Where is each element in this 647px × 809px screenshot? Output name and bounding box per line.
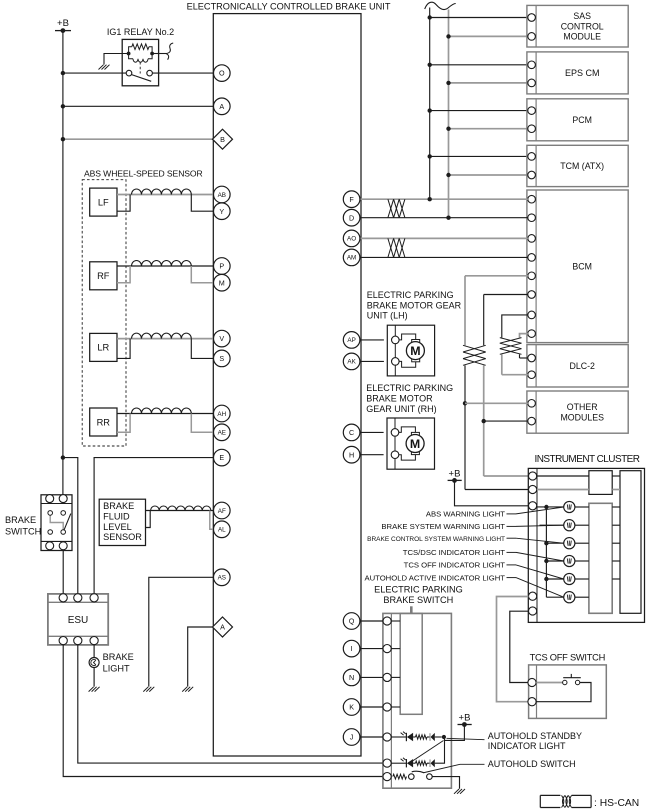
svg-text:AL: AL xyxy=(218,527,226,534)
svg-text:BRAKE: BRAKE xyxy=(103,501,134,511)
svg-text:MODULE: MODULE xyxy=(563,32,601,42)
svg-text:SWITCH: SWITCH xyxy=(5,527,41,537)
svg-text:EPS CM: EPS CM xyxy=(565,68,600,78)
svg-text:+B: +B xyxy=(459,713,471,724)
svg-text:AF: AF xyxy=(218,508,226,515)
svg-text:AH: AH xyxy=(217,411,226,418)
svg-text:C: C xyxy=(349,428,354,437)
svg-text:RF: RF xyxy=(97,271,110,281)
svg-text:BRAKE SWITCH: BRAKE SWITCH xyxy=(383,595,453,605)
svg-text:FLUID: FLUID xyxy=(103,511,130,521)
svg-text:TCS/DSC INDICATOR LIGHT: TCS/DSC INDICATOR LIGHT xyxy=(403,548,506,557)
svg-text:MODULES: MODULES xyxy=(560,412,604,422)
svg-text:INSTRUMENT CLUSTER: INSTRUMENT CLUSTER xyxy=(535,454,640,465)
svg-text:S: S xyxy=(219,354,224,363)
svg-text:BRAKE SYSTEM WARNING LIGHT: BRAKE SYSTEM WARNING LIGHT xyxy=(381,522,505,531)
svg-text:UNIT (LH): UNIT (LH) xyxy=(367,311,408,321)
svg-text:GEAR UNIT (RH): GEAR UNIT (RH) xyxy=(366,404,436,414)
svg-text:AS: AS xyxy=(218,575,226,582)
svg-text:AK: AK xyxy=(347,359,356,366)
svg-text:O: O xyxy=(219,69,225,78)
svg-text:A: A xyxy=(219,102,224,111)
svg-text:AP: AP xyxy=(347,337,355,344)
svg-text:ELECTRIC PARKING: ELECTRIC PARKING xyxy=(374,585,463,595)
svg-text:F: F xyxy=(349,195,354,204)
svg-text:CONTROL: CONTROL xyxy=(561,21,604,31)
svg-text:A: A xyxy=(220,623,225,632)
svg-text:SAS: SAS xyxy=(573,11,591,21)
svg-text:D: D xyxy=(349,213,354,222)
svg-text:+B: +B xyxy=(57,18,69,29)
svg-text:BRAKE CONTROL SYSTEM WARNING L: BRAKE CONTROL SYSTEM WARNING LIGHT xyxy=(367,536,505,543)
svg-text:ELECTRIC PARKING: ELECTRIC PARKING xyxy=(367,290,454,300)
svg-text:SENSOR: SENSOR xyxy=(103,532,142,542)
svg-text:ESU: ESU xyxy=(68,615,89,626)
svg-text:V: V xyxy=(219,334,224,343)
svg-text:ABS WHEEL-SPEED SENSOR: ABS WHEEL-SPEED SENSOR xyxy=(84,169,203,179)
svg-text:AUTOHOLD STANDBY: AUTOHOLD STANDBY xyxy=(488,731,582,741)
svg-text:K: K xyxy=(349,703,354,712)
svg-text:DLC-2: DLC-2 xyxy=(569,361,595,371)
svg-text:RR: RR xyxy=(97,417,111,427)
svg-text:BRAKE: BRAKE xyxy=(103,652,134,662)
svg-text:AUTOHOLD SWITCH: AUTOHOLD SWITCH xyxy=(488,759,576,769)
svg-text:N: N xyxy=(349,673,354,682)
svg-text:M: M xyxy=(410,437,420,451)
svg-text:+B: +B xyxy=(449,468,461,479)
svg-text:BRAKE MOTOR: BRAKE MOTOR xyxy=(366,394,433,404)
svg-text:M: M xyxy=(219,278,225,287)
svg-text:AM: AM xyxy=(347,255,356,262)
svg-text:TCM (ATX): TCM (ATX) xyxy=(560,161,604,171)
svg-text:LF: LF xyxy=(98,197,109,207)
svg-text:OTHER: OTHER xyxy=(567,402,598,412)
svg-text:AO: AO xyxy=(347,236,356,243)
svg-text:M: M xyxy=(410,344,420,358)
svg-text:PCM: PCM xyxy=(572,115,592,125)
svg-text:BRAKE MOTOR GEAR: BRAKE MOTOR GEAR xyxy=(367,300,462,310)
svg-text:H: H xyxy=(349,450,354,459)
svg-text:ELECTRIC PARKING: ELECTRIC PARKING xyxy=(366,383,453,393)
svg-text:BCM: BCM xyxy=(572,261,592,271)
svg-text:TCS OFF INDICATOR LIGHT: TCS OFF INDICATOR LIGHT xyxy=(404,561,506,570)
svg-text:Y: Y xyxy=(219,207,224,216)
svg-text:ELECTRONICALLY CONTROLLED BRAK: ELECTRONICALLY CONTROLLED BRAKE UNIT xyxy=(187,1,391,11)
svg-text:IG1 RELAY No.2: IG1 RELAY No.2 xyxy=(107,27,174,37)
svg-text:: HS-CAN: : HS-CAN xyxy=(594,798,639,809)
svg-text:J: J xyxy=(350,733,354,742)
svg-text:B: B xyxy=(220,135,225,144)
svg-text:AUTOHOLD ACTIVE INDICATOR LIGH: AUTOHOLD ACTIVE INDICATOR LIGHT xyxy=(364,573,505,582)
svg-text:E: E xyxy=(219,453,224,462)
svg-text:I: I xyxy=(351,644,353,653)
svg-text:P: P xyxy=(219,262,224,271)
svg-text:AE: AE xyxy=(218,430,226,437)
svg-text:ABS WARNING LIGHT: ABS WARNING LIGHT xyxy=(426,510,505,519)
svg-text:LEVEL: LEVEL xyxy=(103,522,132,532)
svg-text:AB: AB xyxy=(218,192,226,199)
svg-text:INDICATOR LIGHT: INDICATOR LIGHT xyxy=(488,741,566,751)
svg-text:LR: LR xyxy=(97,343,109,353)
svg-text:LIGHT: LIGHT xyxy=(103,663,130,673)
svg-text:Q: Q xyxy=(349,617,355,626)
svg-text:BRAKE: BRAKE xyxy=(5,515,36,525)
svg-text:TCS OFF SWITCH: TCS OFF SWITCH xyxy=(530,652,606,662)
